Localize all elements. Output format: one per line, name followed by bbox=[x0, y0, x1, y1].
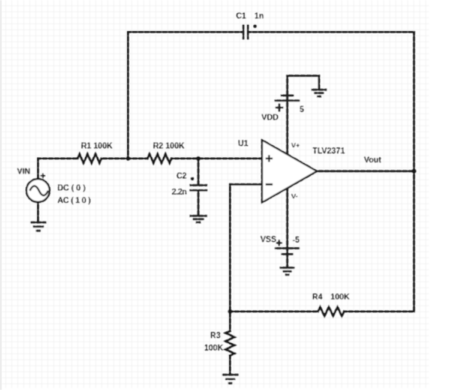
svg-text:V-: V- bbox=[291, 194, 297, 201]
node junction Vout bbox=[412, 169, 416, 173]
svg-text:R2 100K: R2 100K bbox=[153, 141, 185, 150]
capacitor C2 bbox=[190, 185, 208, 190]
source VIN bbox=[26, 173, 49, 202]
resistor R1 bbox=[78, 154, 102, 163]
plus sign VDD bbox=[275, 104, 283, 112]
wire top left segment bbox=[128, 31, 243, 33]
marker dot C2 bbox=[191, 177, 194, 180]
node junction R1/feedback bbox=[126, 156, 130, 160]
wire R4 to right vertical bbox=[344, 310, 414, 312]
svg-text:-5: -5 bbox=[293, 236, 301, 245]
resistor R4 bbox=[318, 307, 344, 316]
svg-text:R1 100K: R1 100K bbox=[81, 141, 113, 150]
wire C2 bottom bbox=[197, 191, 199, 216]
ground R3 bbox=[222, 375, 238, 384]
wire VDD battery top to ground bbox=[287, 76, 319, 96]
capacitor C1 bbox=[243, 25, 248, 40]
svg-text:R4: R4 bbox=[312, 293, 323, 302]
left window edge bbox=[0, 0, 2, 390]
svg-text:1n: 1n bbox=[255, 12, 264, 21]
svg-text:C1: C1 bbox=[236, 12, 247, 21]
battery VDD bbox=[275, 96, 300, 101]
svg-text:R3: R3 bbox=[210, 331, 221, 340]
wire op-amp output bbox=[317, 170, 414, 172]
wire right vertical bbox=[413, 32, 415, 312]
wire VIN top bbox=[37, 159, 39, 180]
wire node to R4 bbox=[230, 310, 318, 312]
wire V+ pin bbox=[286, 101, 288, 154]
wire VIN bottom bbox=[37, 202, 39, 222]
wire VDD battery through bbox=[286, 96, 288, 101]
svg-text:100K: 100K bbox=[331, 293, 350, 302]
svg-text:5: 5 bbox=[300, 105, 305, 114]
ground VIN bbox=[30, 222, 46, 230]
resistor R3 bbox=[226, 331, 235, 356]
svg-text:2.2n: 2.2n bbox=[172, 188, 187, 197]
svg-text:AC ( 1 0 ): AC ( 1 0 ) bbox=[58, 196, 92, 205]
svg-text:V+: V+ bbox=[291, 143, 300, 150]
wire R3 to ground bbox=[229, 356, 231, 375]
marker dot C1 bbox=[253, 25, 256, 28]
wire VIN to R1 bbox=[38, 157, 78, 159]
wire V- pin bbox=[286, 188, 288, 248]
op-amp U1 bbox=[262, 140, 317, 203]
svg-text:U1: U1 bbox=[238, 139, 249, 148]
svg-text:DC ( 0 ): DC ( 0 ) bbox=[58, 184, 86, 193]
wire top right segment bbox=[248, 31, 414, 33]
svg-text:VIN: VIN bbox=[17, 167, 31, 176]
plus sign VSS bbox=[276, 240, 282, 246]
wire C2 top bbox=[197, 159, 199, 186]
wire op-amp minus input bbox=[230, 183, 262, 185]
wire VSS battery through bbox=[286, 248, 288, 254]
node junction R3/R4 bbox=[228, 309, 232, 313]
svg-text:C2: C2 bbox=[177, 172, 188, 181]
svg-text:VSS: VSS bbox=[260, 235, 277, 244]
wire VSS battery to ground bbox=[286, 254, 288, 267]
wire R1 to R2 bbox=[102, 157, 148, 159]
wire left vertical feedback bbox=[127, 32, 129, 159]
battery VSS bbox=[275, 248, 300, 254]
svg-text:VDD: VDD bbox=[262, 113, 279, 122]
node junction C2 bbox=[196, 156, 200, 160]
svg-text:Vout: Vout bbox=[364, 155, 382, 164]
wire minus node vertical bbox=[229, 184, 231, 311]
resistor R2 bbox=[148, 154, 172, 163]
ground VSS bbox=[280, 268, 295, 275]
ground VDD bbox=[311, 90, 327, 97]
wire node to R3 bbox=[229, 312, 231, 332]
svg-text:TLV2371: TLV2371 bbox=[313, 146, 346, 155]
svg-text:100K: 100K bbox=[204, 343, 223, 352]
wire R2 to op-amp plus input bbox=[172, 157, 263, 159]
ground C2 bbox=[190, 216, 208, 222]
